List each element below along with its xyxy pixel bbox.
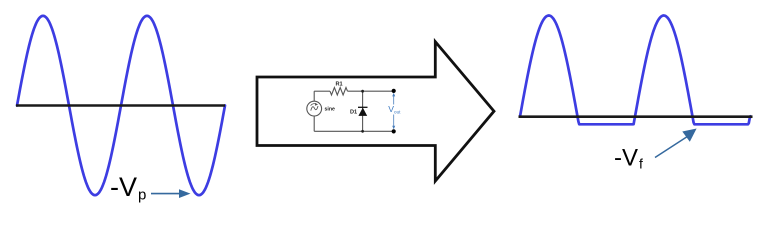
svg-text:sine: sine xyxy=(325,107,335,113)
circuit: wire loop xyxy=(307,88,394,132)
big block arrow xyxy=(257,42,494,181)
diode branch wire xyxy=(362,91,364,131)
output terminal dot top xyxy=(392,89,396,93)
junction dot bottom xyxy=(361,130,364,133)
output terminal dot bottom xyxy=(392,129,396,133)
arrow to -Vf level xyxy=(655,129,697,158)
junction dot top xyxy=(361,90,364,93)
sine source circle xyxy=(307,101,322,116)
Vout dimension arrows xyxy=(393,94,395,128)
sine source symbol xyxy=(311,106,318,111)
wire top: resistor to node and terminal xyxy=(348,90,394,92)
left waveform axis xyxy=(16,104,225,107)
resistor R1 zigzag xyxy=(330,88,348,96)
right clipped output wave xyxy=(520,16,750,125)
wire bottom xyxy=(314,130,394,132)
wire left: source leads xyxy=(313,91,315,101)
svg-text:D1: D1 xyxy=(350,110,357,116)
diode D1 xyxy=(358,107,368,116)
svg-text:R1: R1 xyxy=(336,82,343,88)
wire top: source top to resistor xyxy=(314,90,330,92)
arrow to -Vp trough xyxy=(151,189,191,198)
right waveform axis xyxy=(519,115,753,118)
left input sine wave xyxy=(17,16,225,195)
